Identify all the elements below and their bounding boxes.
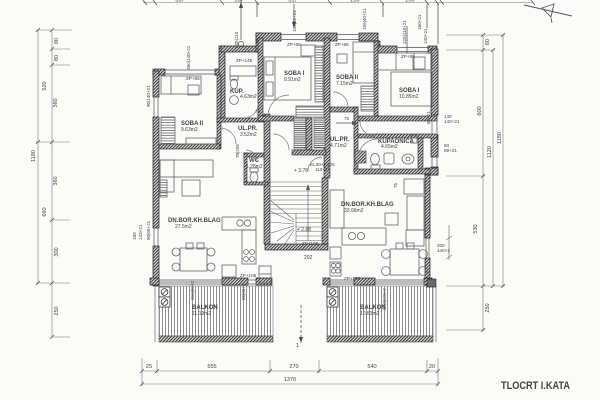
svg-text:360: 360 [53,98,59,107]
svg-text:1180: 1180 [31,150,37,162]
svg-text:75: 75 [344,116,350,121]
svg-text:75: 75 [393,182,398,188]
svg-text:1120: 1120 [487,146,493,158]
svg-text:3.52m2: 3.52m2 [240,132,257,138]
svg-text:160+21: 160+21 [417,14,422,30]
svg-text:25: 25 [146,364,152,370]
svg-text:4.65m2: 4.65m2 [381,144,398,150]
svg-text:300: 300 [54,247,60,256]
svg-text:250: 250 [485,303,491,312]
svg-text:200: 200 [350,0,359,4]
svg-text:180: 180 [132,232,137,240]
svg-text:+ 3.78: + 3.78 [294,168,308,174]
svg-text:55|95+2: 55|95+2 [241,283,246,300]
svg-text:155|40+21: 155|40+21 [362,8,367,30]
svg-text:270: 270 [289,364,298,370]
svg-text:20: 20 [429,364,435,370]
svg-text:ZP+85: ZP+85 [335,42,349,47]
svg-text:140+21: 140+21 [444,119,460,124]
svg-text:107: 107 [234,0,243,4]
svg-text:100|40+21: 100|40+21 [292,10,297,32]
svg-text:ZP+105: ZP+105 [240,273,257,278]
svg-text:317: 317 [288,0,297,4]
svg-text:ZP+105: ZP+105 [302,241,319,246]
svg-text:202: 202 [304,255,313,261]
svg-text:270|225+2: 270|225+2 [382,288,387,310]
svg-text:10.85m2: 10.85m2 [399,94,419,100]
svg-text:TLOCRT I.KATA: TLOCRT I.KATA [501,380,570,392]
svg-text:78: 78 [255,109,261,114]
svg-text:143+21: 143+21 [138,224,143,240]
svg-text:78|205: 78|205 [235,144,240,158]
svg-text:7.15m2: 7.15m2 [336,81,353,87]
svg-text:80: 80 [54,55,60,61]
svg-text:27.5m2: 27.5m2 [175,224,192,230]
svg-text:660: 660 [42,207,48,216]
svg-text:11.19m2: 11.19m2 [192,311,211,317]
svg-text:600: 600 [477,106,483,115]
svg-text:359|95+2: 359|95+2 [190,280,195,300]
svg-text:540: 540 [367,364,376,370]
svg-text:250: 250 [54,306,60,315]
svg-text:140+2: 140+2 [437,248,450,253]
svg-text:4.63m2: 4.63m2 [240,94,257,100]
svg-text:90|95+21: 90|95+21 [146,220,151,240]
svg-text:225|110+21: 225|110+21 [402,20,407,44]
svg-text:ZP+105: ZP+105 [344,276,361,281]
svg-text:9.63m2: 9.63m2 [181,127,198,133]
svg-text:367: 367 [175,0,184,4]
svg-text:ZP+145: ZP+145 [236,58,253,63]
svg-text:530: 530 [473,224,479,233]
svg-text:33.66m2: 33.66m2 [344,208,364,214]
svg-text:1.28m2: 1.28m2 [246,164,263,170]
svg-text:140+21: 140+21 [423,28,428,44]
svg-text:80: 80 [54,38,60,44]
svg-text:89+21: 89+21 [444,148,457,153]
svg-text:60: 60 [485,39,491,45]
svg-text:360: 360 [53,176,59,185]
svg-text:4.71m2: 4.71m2 [330,143,347,149]
svg-text:ZP+85: ZP+85 [287,42,301,47]
svg-text:1: 1 [296,343,299,349]
svg-text:555: 555 [207,364,216,370]
svg-text:110+21: 110+21 [315,167,331,172]
svg-text:+ 2.88: + 2.88 [297,227,311,233]
svg-text:88+21: 88+21 [426,111,431,124]
svg-text:520: 520 [42,81,48,90]
svg-text:90|140+21: 90|140+21 [146,85,151,107]
svg-text:205|110: 205|110 [234,31,239,48]
svg-text:200: 200 [405,0,414,4]
svg-text:ZP+85: ZP+85 [186,76,200,81]
svg-text:9.91m2: 9.91m2 [284,77,301,83]
svg-text:10.83m2: 10.83m2 [360,311,380,317]
svg-text:160|140+21: 160|140+21 [186,45,191,70]
svg-text:1180: 1180 [497,132,503,144]
svg-text:ZP+85: ZP+85 [401,54,415,59]
svg-text:1370: 1370 [284,377,296,383]
